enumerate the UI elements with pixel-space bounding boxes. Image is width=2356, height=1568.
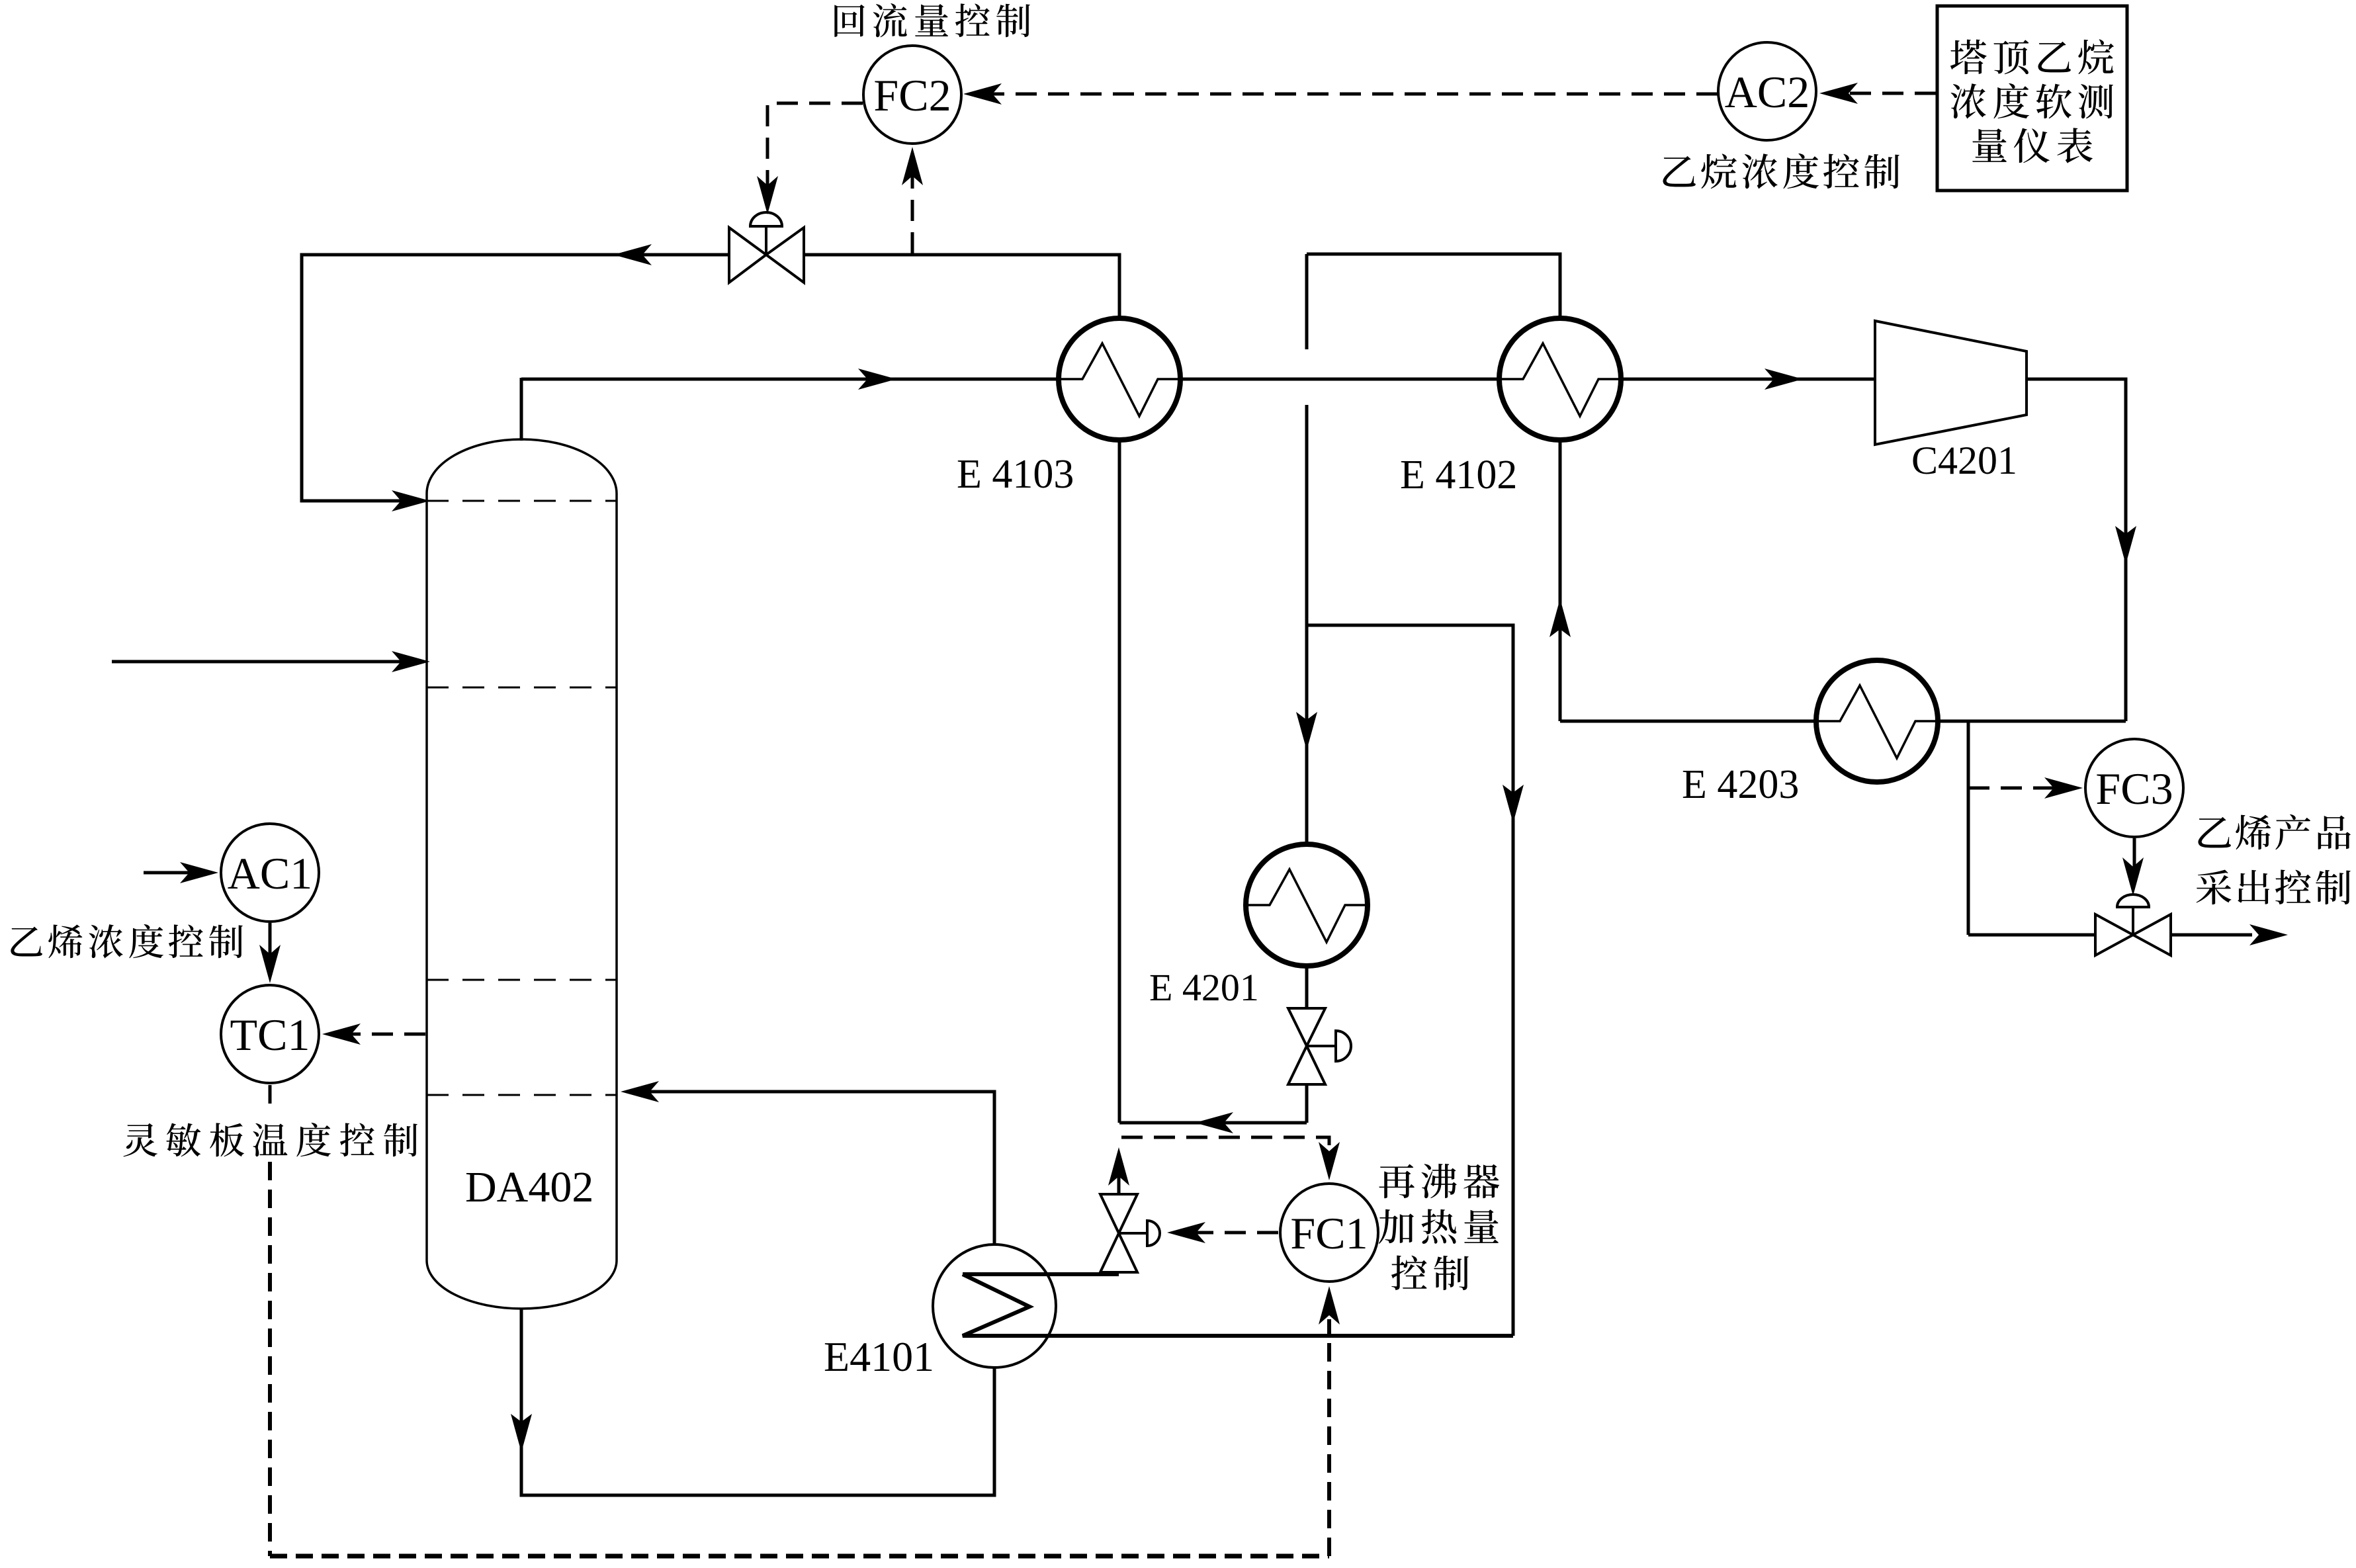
- arrow: into AC1: [180, 862, 218, 883]
- wire: E4201 valve lower leg: [1305, 1084, 1309, 1123]
- arrow: FC3 signal onto product valve dome: [2122, 857, 2144, 896]
- signal line: AC2 output to FC2: [981, 93, 1718, 96]
- signal line: FC1 output to reboiler valve actuator: [1184, 1231, 1278, 1235]
- wire: E4102 bottom leg down to E4203 line: [1559, 441, 1562, 721]
- wire: stub from reboiler valve up to junction with arrow: [1117, 1170, 1121, 1194]
- product control valve: [2095, 914, 2133, 955]
- svg-text:FC2: FC2: [873, 70, 951, 120]
- column internal tray dashed line 3: [427, 979, 617, 981]
- arrow: reflux into column: [392, 490, 430, 511]
- arrow: column bottoms down: [511, 1414, 532, 1452]
- signal line: AC1 output to TC1: [269, 923, 272, 969]
- arrow: main line into E4103: [858, 369, 896, 390]
- svg-text:AC1: AC1: [228, 848, 312, 898]
- arrow: AC1 to TC1: [259, 945, 281, 983]
- arrow: measurement down into FC1: [1319, 1142, 1340, 1180]
- controller TC1 (sensitive tray temperature): [221, 985, 319, 1083]
- wire: E4101 coil inlet (bottom) from branch line: [963, 1334, 1513, 1338]
- wire: E4103 refrigerant bottom leg down to reboiler junction: [1118, 441, 1121, 1123]
- label: ethylene product draw control: [2198, 817, 2230, 848]
- label: ethane concentration control: [1663, 156, 1695, 187]
- arrow: return line into column: [621, 1081, 659, 1102]
- wire: E4201 riser up to reflux header (with crossing break at main line): [1305, 405, 1309, 842]
- E4201 outlet valve: [1288, 1008, 1325, 1046]
- svg-text:TC1: TC1: [230, 1010, 310, 1060]
- arrow: product out: [2249, 924, 2288, 945]
- wire: product branch down from E4203 line: [1967, 721, 1970, 935]
- svg-text:E 4201: E 4201: [1149, 966, 1259, 1009]
- svg-text:E 4203: E 4203: [1682, 762, 1799, 807]
- column internal tray dashed line 2: [427, 687, 617, 689]
- arrow: down toward E4201: [1296, 712, 1317, 750]
- controller FC1 (reboiler heat duty): [1280, 1184, 1378, 1282]
- wire: E4201 valve upper stub: [1305, 968, 1309, 1008]
- wire: column bottoms to E4101: [521, 1309, 994, 1495]
- wire: junction horizontal from E4201 valve leg to E4103 leg: [1119, 1121, 1307, 1125]
- controller AC1 (ethylene concentration): [221, 824, 319, 922]
- soft sensor instrument box: [1937, 6, 2127, 191]
- arrow: junction flow toward E4103 leg: [1195, 1112, 1233, 1133]
- arrow: reflux toward column: [613, 244, 652, 265]
- controller FC3 (product draw): [2085, 739, 2183, 837]
- signal line: column temperature to TC1: [339, 1033, 425, 1036]
- wire: reboiler return line into column: [635, 1092, 994, 1245]
- signal line: flow measurement to FC1: [1121, 1137, 1329, 1166]
- arrow: AC2 signal into FC2: [963, 83, 1002, 105]
- label: reflux flow control (hui liu liang kong zhi): [834, 5, 864, 37]
- wire: feed line into column: [112, 660, 423, 664]
- wire: main overhead line to E4103, E4102, C4201: [521, 378, 1875, 381]
- arrow: FC2 signal onto valve dome: [757, 176, 778, 214]
- reboiler heating valve: [1100, 1194, 1137, 1233]
- heat exchanger E4203: [1816, 660, 1938, 782]
- wire: overhead vapour riser from column top: [520, 378, 523, 441]
- arrow: riser up into E4102: [1549, 599, 1571, 637]
- wire: branch from E4201 riser to E4101 coil feed: [1307, 625, 1513, 1336]
- signal line: flow measurement up into FC2: [911, 167, 914, 253]
- wire: ethylene product line through control valve: [1968, 934, 2252, 937]
- svg-text:FC1: FC1: [1290, 1208, 1368, 1258]
- svg-text:E 4103: E 4103: [957, 452, 1074, 497]
- svg-text:E 4102: E 4102: [1400, 453, 1517, 498]
- signal line: FC3 output to product valve actuator: [2133, 838, 2136, 883]
- label: overhead ethane soft sensor box text: [1950, 40, 1987, 74]
- controller FC2 (reflux flow): [863, 46, 961, 144]
- wire: C4201 outlet down-comer: [2027, 379, 2126, 721]
- arrow: box signal into AC2: [1819, 83, 1858, 104]
- wire: E4101 coil outlet (top) to reboiler valve: [963, 1272, 1119, 1276]
- svg-text:FC3: FC3: [2095, 763, 2173, 814]
- signal line: FC2 output to reflux valve actuator: [767, 103, 863, 200]
- controller AC2 (ethane concentration): [1718, 42, 1816, 140]
- compressor C4201: [1875, 321, 2027, 445]
- heat exchanger E4103: [1059, 318, 1180, 440]
- reflux control valve: [729, 228, 766, 283]
- svg-text:DA402: DA402: [465, 1163, 593, 1211]
- wire: E4103 refrigerant top stub and reflux header back to column: [302, 255, 1119, 501]
- signal line: TC1 output down, along bottom, up to FC1: [269, 1085, 272, 1104]
- arrow: into TC1 from column: [322, 1024, 361, 1045]
- signal line: AC1 analyzer input: [144, 871, 206, 875]
- reboiler E4101: [933, 1244, 1056, 1368]
- column internal tray dashed line 1: [427, 500, 617, 502]
- arrow: up from reboiler valve: [1108, 1147, 1129, 1186]
- signal line: flow measurement to FC3: [1968, 787, 2068, 790]
- signal line: soft sensor box to AC2: [1837, 92, 1936, 95]
- heat exchanger E4201: [1246, 844, 1368, 966]
- label: ethylene concentration control: [11, 927, 42, 957]
- reboiler E4101 coil: [963, 1274, 1056, 1336]
- wire: E4203 horizontal line: [1560, 720, 2126, 723]
- distillation column DA402 shell: [427, 439, 617, 1309]
- heat exchanger E4102: [1499, 318, 1621, 440]
- svg-text:C4201: C4201: [1911, 439, 2017, 482]
- wire: reflux header right segment down to E4102 top: [1307, 254, 1560, 316]
- arrow: down toward E4101 coil: [1503, 785, 1524, 823]
- arrow: feed into column: [392, 651, 430, 672]
- arrow: C4201 down-comer flow: [2115, 526, 2136, 564]
- label: reboiler heat duty control: [1379, 1164, 1415, 1199]
- column internal tray dashed line 4: [427, 1094, 617, 1096]
- arrow: main line into C4201: [1765, 369, 1803, 390]
- svg-text:AC2: AC2: [1725, 67, 1810, 117]
- arrow: TC1 signal up into FC1: [1319, 1286, 1340, 1325]
- arrow: FC1 signal onto reboiler valve actuator: [1167, 1222, 1205, 1243]
- arrow: signal into FC3: [2044, 777, 2083, 799]
- label: sensitive tray temperature control (with white backing over signal line): [120, 1119, 419, 1159]
- arrow: measurement up into FC2: [902, 147, 923, 185]
- svg-text:E4101: E4101: [824, 1333, 934, 1380]
